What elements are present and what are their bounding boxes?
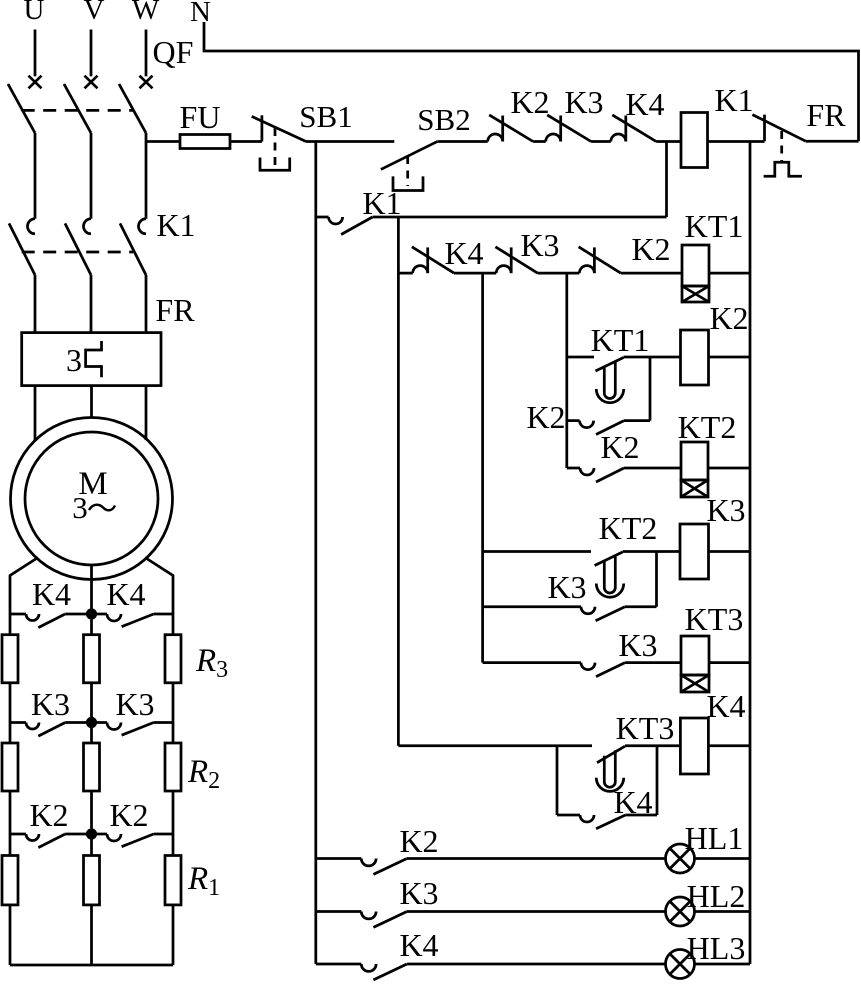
contact KT2 delayed: wire, blade [483, 550, 591, 553]
wire right rail to R row3 [172, 834, 175, 856]
wire K3 hold to drop [625, 605, 657, 608]
contact FR thermal element [764, 162, 802, 176]
pushbutton SB2 cap [393, 176, 423, 190]
svg-text:QF: QF [153, 34, 194, 70]
motor M outer circle [11, 418, 173, 580]
svg-text:K2: K2 [109, 797, 148, 833]
svg-text:K3: K3 [520, 227, 559, 263]
svg-text:K2: K2 [526, 399, 565, 435]
svg-text:KT3: KT3 [685, 601, 744, 637]
svg-text:K1: K1 [156, 207, 195, 243]
node junction dot K4 row [87, 610, 95, 618]
svg-text:KT2: KT2 [599, 510, 658, 546]
svg-text:K4: K4 [106, 576, 145, 612]
fuse FU body [180, 135, 230, 149]
node junction dot K2 row [87, 830, 95, 838]
breaker QF linkage dashed [22, 109, 133, 112]
wire mid R2 to K2 row [90, 791, 93, 834]
wire HL2 to right rail [695, 910, 751, 913]
wire K4 to K3 row3 [454, 272, 496, 275]
svg-text:3: 3 [72, 490, 88, 525]
thermal relay FR body [22, 333, 161, 386]
svg-text:FU: FU [180, 99, 221, 135]
wire K4 coil to right rail [708, 744, 750, 747]
wire U phase drop [34, 30, 37, 77]
svg-text:SB2: SB2 [417, 102, 470, 137]
coil K1 body [681, 113, 708, 168]
contact K3 shorting left: wire, arc, blade [10, 721, 26, 724]
contact K2 hold: wire, arc, blade [567, 419, 580, 422]
svg-text:K1: K1 [362, 185, 401, 221]
wire KT1 contact to K2 coil [624, 356, 682, 359]
node junction dot K3 row [87, 718, 95, 726]
wire left R2 to K2 row [9, 791, 12, 834]
wire V QF to K1 [90, 133, 93, 219]
svg-text:K2: K2 [600, 429, 639, 465]
contact K4 shorting left: wire, arc, blade [10, 613, 26, 616]
contact K4 shorting right: wire, arc, blade [92, 613, 108, 616]
wire W branch to fuse [146, 140, 180, 143]
wire K2 to KT1 coil [621, 272, 682, 275]
wire right R2 to K2 row [172, 791, 175, 834]
wire left rail to R row1 [9, 614, 12, 635]
svg-text:R2: R2 [187, 754, 220, 794]
wire W QF to K1 [145, 133, 148, 219]
contact K2 shorting left: wire, arc, blade [10, 833, 26, 836]
resistor R1 middle element [84, 856, 100, 905]
resistor R3 middle element [84, 635, 100, 683]
wire left drop KT3 row to K4 hold row [556, 746, 559, 815]
breaker QF pole 3 contact cross [140, 76, 153, 89]
svg-text:KT2: KT2 [678, 409, 737, 445]
breaker QF pole 2 blade [64, 84, 91, 133]
svg-text:N: N [190, 0, 211, 28]
svg-text:V: V [84, 0, 105, 26]
contact K4 hold: wire, arc, blade [557, 814, 580, 817]
lamp HL2 symbol [666, 897, 695, 926]
svg-text:KT3: KT3 [616, 710, 675, 746]
breaker QF pole 1 blade [8, 84, 35, 133]
wire right control rail [749, 142, 752, 965]
wire FR to N rail [806, 140, 859, 143]
wire right R1 to bus [172, 905, 175, 965]
resistor R1 right element [165, 856, 181, 905]
wire K2 to lamp HL1 [407, 857, 666, 860]
contact K4 NC row1: arc, bar, blade [611, 134, 626, 142]
coil K4 body [680, 718, 708, 774]
breaker QF pole 3 blade [119, 84, 146, 133]
svg-text:FR: FR [155, 292, 195, 328]
coil KT1 body [682, 245, 709, 286]
contactor K1 main pole 3 fixed contact arc [139, 219, 147, 234]
svg-text:K3: K3 [706, 492, 745, 528]
contact K1 hold: wire, arc, blade [316, 216, 329, 219]
wire motor to middle resistor rail [90, 565, 93, 614]
contact K3 lamp row: wire, arc, blade [316, 910, 362, 913]
wire K2 to K3 row1 [533, 140, 546, 143]
wire KT2 contact to K3 coil [623, 550, 680, 553]
wire rail C [565, 273, 568, 468]
wire mid R1 to bus [90, 905, 93, 965]
wire mid rail to R row1 [90, 614, 93, 635]
wire U K1 to FR [34, 275, 37, 333]
wire right rail to R row2 [172, 723, 175, 744]
wire V FR to motor [90, 386, 93, 419]
resistor R1 left element [2, 856, 18, 905]
contact K3 NC row3: arc, bar, blade [496, 266, 511, 273]
wire bottom bus [10, 964, 173, 967]
wire U QF to K1 [34, 133, 37, 219]
wire W K1 to FR [145, 275, 148, 333]
svg-text:KT1: KT1 [685, 208, 744, 244]
contact KT3 delayed: wire, blade [398, 744, 592, 747]
wire left R3 to K3 row [9, 683, 12, 723]
pushbutton SB2 blade [381, 141, 438, 169]
contact K2 NO row6: wire, arc, blade [567, 467, 580, 470]
svg-text:K4: K4 [32, 576, 71, 612]
coil K2 body [681, 330, 709, 385]
wire V phase drop [90, 30, 93, 77]
contact KT3 delay symbol stem [604, 750, 615, 787]
wire HL3 to right rail [695, 963, 751, 966]
svg-text:3: 3 [66, 342, 82, 378]
svg-text:U: U [24, 0, 45, 26]
contact K3 NO row9: wire, arc, blade [483, 661, 581, 664]
wire mid rail to R row3 [90, 834, 93, 856]
contact KT1 delay symbol stem [604, 362, 615, 399]
svg-text:K3: K3 [31, 686, 70, 722]
svg-text:FR: FR [806, 97, 846, 133]
wire K4 to lamp HL3 [407, 963, 666, 966]
wire K3 to lamp HL2 [407, 910, 666, 913]
contact K3 hold: wire, arc, blade [483, 605, 581, 608]
wire K4 to K1 coil [656, 140, 681, 143]
contact K4 lamp row: wire, arc, blade [316, 963, 362, 966]
contact KT2 delay symbol stem [604, 556, 615, 593]
pushbutton SB2 actuator dashed [406, 156, 409, 186]
pushbutton SB1 actuator dashed [274, 128, 277, 166]
svg-text:K3: K3 [618, 627, 657, 663]
wire HL1 to right rail [695, 857, 751, 860]
wire K1 hold row to drop [373, 216, 667, 219]
resistor R3 left element [2, 635, 18, 683]
svg-text:K2: K2 [399, 823, 438, 859]
svg-text:R3: R3 [195, 643, 228, 683]
contact KT2 delay symbol cup [596, 584, 623, 598]
wire KT3 contact to K4 coil [625, 744, 680, 747]
svg-text:K3: K3 [547, 569, 586, 605]
svg-text:K4: K4 [399, 927, 438, 963]
svg-text:KT1: KT1 [591, 322, 650, 358]
wire KT2 coil to right rail [708, 467, 750, 470]
lamp HL3 symbol [666, 950, 695, 979]
motor M inner circle [25, 432, 158, 565]
coil K3 body [680, 524, 709, 579]
wire SB1 to SB2 [306, 140, 394, 143]
wire K3 to K2 row3 [538, 272, 580, 275]
wire fuse to SB1 [230, 140, 262, 143]
wire right drop KT3 row to K4 hold row [656, 746, 659, 815]
coil KT3 delay element box with cross [681, 675, 709, 692]
breaker QF pole 2 contact cross [85, 76, 98, 89]
wire V K1 to FR [90, 275, 93, 333]
wire mid R3 to K3 row [90, 683, 93, 723]
svg-text:K4: K4 [706, 688, 745, 724]
wire K3 NO to KT3 coil [625, 661, 681, 664]
svg-text:SB1: SB1 [299, 99, 352, 134]
coil KT3 body [681, 636, 709, 675]
wire rail A [397, 217, 400, 746]
contact FR actuator dashed [780, 131, 783, 162]
wire W phase drop [145, 30, 148, 77]
resistor R2 middle element [84, 743, 100, 791]
wire U FR to motor [34, 386, 37, 441]
svg-text:K3: K3 [115, 686, 154, 722]
wire KT1 coil to right rail [709, 272, 750, 275]
coil KT2 delay element box with cross [681, 480, 708, 497]
contact K2 lamp row: wire, arc, blade [316, 857, 362, 860]
contactor K1 main pole 1 blade [9, 223, 35, 275]
wire rail B [481, 273, 484, 662]
svg-text:K2: K2 [709, 300, 748, 336]
svg-text:K1: K1 [714, 82, 753, 118]
wire left R1 to bus [9, 905, 12, 965]
resistor R2 left element [2, 743, 18, 791]
contact K3 shorting right: wire, arc, blade [92, 721, 108, 724]
contactor K1 main pole 2 fixed contact arc [84, 219, 91, 234]
contact K2 shorting right: wire, arc, blade [92, 833, 108, 836]
wire K1 coil to FR contact [708, 140, 765, 143]
contact K2 NC row1: arc, bar, blade [488, 134, 503, 142]
resistor R3 right element [165, 635, 181, 683]
wire SB2 to K2 [438, 140, 488, 143]
wire N to right edge [204, 22, 859, 141]
svg-text:K2: K2 [510, 84, 549, 120]
svg-text:K4: K4 [625, 86, 664, 122]
svg-text:K2: K2 [631, 231, 670, 267]
pushbutton SB1 cap [260, 158, 290, 171]
wire left control rail [314, 142, 317, 965]
pushbutton SB1 blade [252, 116, 306, 141]
svg-text:W: W [132, 0, 160, 26]
contact KT3 delay symbol cup [596, 778, 623, 792]
resistor R2 right element [165, 743, 181, 791]
svg-text:R1: R1 [187, 861, 220, 901]
svg-text:K2: K2 [29, 797, 68, 833]
contactor K1 main pole 2 blade [65, 223, 91, 275]
wire right R3 to K3 row [172, 683, 175, 723]
breaker QF pole 1 contact cross [29, 76, 42, 89]
wire motor to right resistor rail [145, 558, 173, 615]
wire drop KT1 row to K2 hold row [649, 357, 652, 421]
wire motor to left resistor rail [10, 558, 38, 615]
coil KT1 delay element box with cross [682, 286, 709, 302]
contact KT1 delayed: wire, blade [567, 356, 594, 359]
wire left rail to R row3 [9, 834, 12, 856]
contact K2 NC row3: arc, bar, blade [579, 266, 594, 273]
svg-text:K4: K4 [444, 235, 483, 271]
wire K2 NO to KT2 coil [624, 467, 681, 470]
contactor K1 main pole 3 blade [120, 223, 146, 275]
svg-text:K3: K3 [564, 84, 603, 120]
wire K3 to K4 row1 [591, 140, 611, 143]
wire mid rail to R row2 [90, 723, 93, 744]
wire K1 coil drop to hold row [665, 142, 668, 218]
contact K3 NC row1: arc, bar, blade [546, 134, 561, 142]
wire K3 coil to right rail [709, 550, 751, 553]
wire KT3 coil to right rail [709, 661, 750, 664]
wire left rail to R row2 [9, 723, 12, 744]
contact KT1 delay symbol cup [596, 389, 623, 403]
contactor K1 linkage dashed [22, 251, 133, 254]
svg-text:K3: K3 [399, 875, 438, 911]
contactor K1 main pole 1 fixed contact arc [28, 219, 35, 234]
lamp HL1 symbol [666, 844, 695, 873]
contact FR NC: bar, blade [763, 115, 766, 142]
wire drop KT2 row to K3 hold row [655, 552, 658, 607]
pushbutton SB1 stop bar [261, 115, 264, 141]
wire W FR to motor [145, 386, 148, 440]
wire right rail to R row1 [172, 614, 175, 635]
thermal relay FR heater element symbol [86, 341, 102, 377]
wire K2 coil to right rail [709, 356, 751, 359]
wire K2 hold to drop [624, 419, 650, 422]
contact K4 NC row3: wire, arc, bar, blade [398, 272, 412, 275]
wire K4 hold to right drop [625, 814, 657, 817]
coil KT2 body [681, 442, 708, 480]
